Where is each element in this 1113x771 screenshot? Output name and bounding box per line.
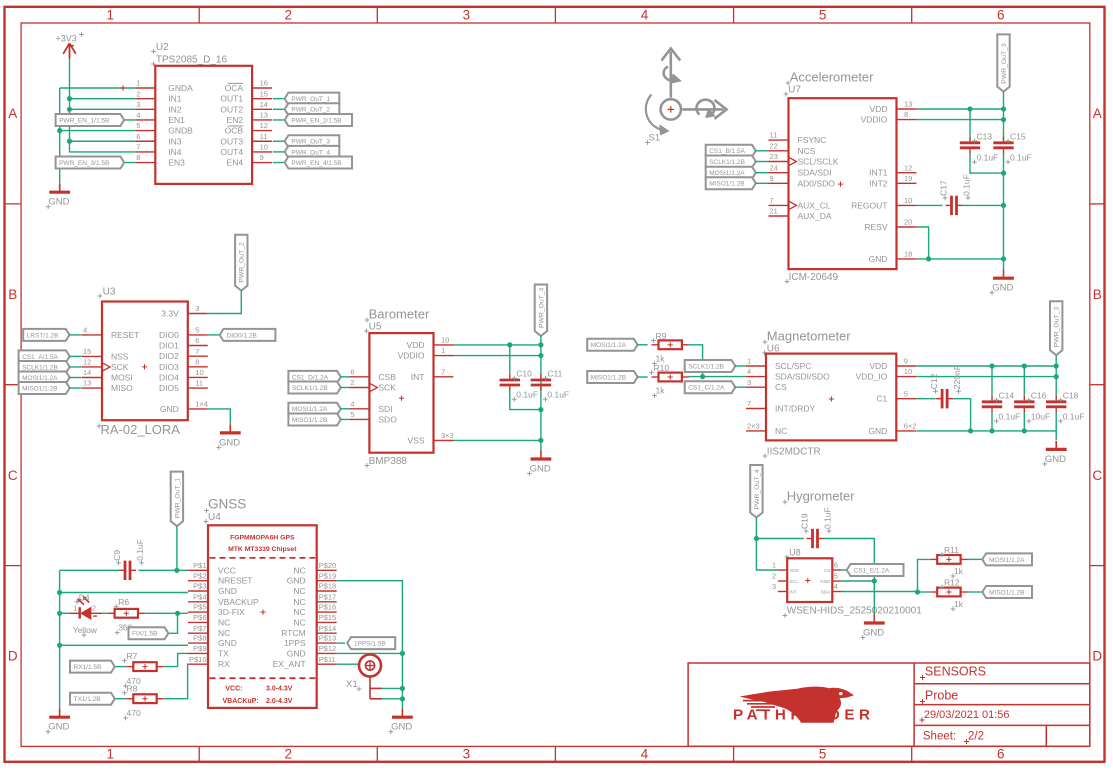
resistor R9 1k xyxy=(651,331,689,366)
U2 pin 3 (IN2) xyxy=(135,100,182,114)
U2 pin 9 (EN4) xyxy=(227,153,273,167)
svg-text:Accelerometer: Accelerometer xyxy=(790,70,874,85)
net label PWR_OuT_2 xyxy=(285,103,340,115)
svg-text:DIO3: DIO3 xyxy=(159,362,179,372)
svg-text:NSS: NSS xyxy=(111,351,129,361)
wire GND trunk xyxy=(59,88,61,184)
net label SCLK1/1.2B xyxy=(685,360,736,372)
resistor R12 1k xyxy=(930,578,967,612)
svg-text:7: 7 xyxy=(770,196,774,205)
svg-text:A: A xyxy=(8,106,17,121)
U7 pin 9 (AD0/SDO) xyxy=(769,174,836,188)
svg-text:C18: C18 xyxy=(1063,391,1079,401)
wire C9 left lead xyxy=(60,569,119,571)
U3 pin 10 (DIO4) xyxy=(159,368,208,382)
svg-text:10: 10 xyxy=(904,196,912,205)
svg-text:C15: C15 xyxy=(1010,132,1026,142)
svg-text:P$2: P$2 xyxy=(193,571,206,580)
svg-text:GND: GND xyxy=(48,722,69,733)
svg-text:10: 10 xyxy=(904,367,912,376)
ground near U5 xyxy=(527,450,551,476)
svg-text:U2: U2 xyxy=(156,42,169,53)
wire VDD xyxy=(917,108,1004,110)
svg-text:INT: INT xyxy=(411,372,425,382)
svg-text:4: 4 xyxy=(350,399,354,408)
svg-text:1k: 1k xyxy=(656,386,666,396)
svg-text:DIO5: DIO5 xyxy=(159,383,179,393)
svg-text:C10: C10 xyxy=(516,369,532,379)
svg-text:GND: GND xyxy=(218,638,237,648)
svg-text:GNDB: GNDB xyxy=(168,126,193,136)
U4 dashed separator bottom xyxy=(210,677,316,679)
junction xyxy=(57,590,62,595)
svg-text:SCL/SPC: SCL/SPC xyxy=(775,361,811,371)
svg-text:P$19: P$19 xyxy=(319,571,337,580)
svg-text:S1: S1 xyxy=(649,133,661,144)
U2 origin cross xyxy=(120,85,125,90)
svg-text:SCK: SCK xyxy=(111,362,129,372)
svg-text:SDA/SDI/SDO: SDA/SDI/SDO xyxy=(775,372,830,382)
wire CS1_E xyxy=(842,569,846,571)
svg-text:VCC: VCC xyxy=(218,565,236,575)
net label RX1/1.5B xyxy=(70,661,115,673)
wire GND pin xyxy=(842,580,875,582)
wire to LED xyxy=(60,612,70,614)
svg-text:SCL: SCL xyxy=(789,579,798,584)
svg-text:D4: D4 xyxy=(79,592,90,602)
gyroscope symbol S1 xyxy=(645,49,726,145)
net label MOSI1/1.2A xyxy=(587,339,637,351)
GNSS module U4 body xyxy=(208,525,317,708)
svg-text:PWR_OuT_3: PWR_OuT_3 xyxy=(1054,307,1061,348)
svg-text:1PPS: 1PPS xyxy=(284,638,306,648)
U3 pin 6 (DIO1) xyxy=(159,336,208,350)
ground lower left xyxy=(46,709,70,735)
junction xyxy=(1054,374,1059,379)
svg-text:EN2: EN2 xyxy=(227,115,244,125)
svg-text:3.0-4.3V: 3.0-4.3V xyxy=(266,686,293,693)
svg-text:GNDA: GNDA xyxy=(168,83,193,93)
svg-text:9: 9 xyxy=(770,174,774,183)
U2 pin 7 (IN4) xyxy=(135,143,182,157)
net label PWR_EN_4/1.5B xyxy=(285,157,352,169)
junction xyxy=(915,589,920,594)
wire DIO0 xyxy=(208,334,219,336)
svg-text:CSB: CSB xyxy=(378,372,396,382)
U3 pin 11 (DIO5) xyxy=(159,379,208,393)
svg-text:AUX_CL: AUX_CL xyxy=(798,200,831,210)
wire RX1 to R7 xyxy=(116,666,127,668)
barometer U5 body xyxy=(369,333,433,453)
svg-text:A: A xyxy=(1093,106,1102,121)
svg-text:P$3: P$3 xyxy=(193,582,206,591)
junction xyxy=(1022,428,1027,433)
U6 pin 2×3 (NC) xyxy=(746,422,787,436)
svg-text:1PPS/1.5B: 1PPS/1.5B xyxy=(354,641,386,648)
svg-text:OCA: OCA xyxy=(225,83,244,93)
svg-text:2/2: 2/2 xyxy=(968,731,984,743)
svg-text:MOSI: MOSI xyxy=(111,373,133,383)
wire C18 bottom lead xyxy=(1055,412,1057,440)
svg-text:8: 8 xyxy=(195,357,199,366)
ground near U2 xyxy=(46,184,70,210)
svg-text:Probe: Probe xyxy=(925,689,958,703)
svg-text:P$11: P$11 xyxy=(319,655,336,664)
svg-text:GND: GND xyxy=(869,254,888,264)
net label PWR_EN_2/1.5B xyxy=(285,114,352,126)
svg-text:DIO1: DIO1 xyxy=(159,341,179,351)
U5 pin 7 (INT) xyxy=(411,367,454,381)
net label PWR_OuT_2 xyxy=(235,235,247,291)
capacitor C19 0.1uF xyxy=(800,507,833,548)
svg-text:OUT1: OUT1 xyxy=(220,94,243,104)
svg-text:PWR_OuT_3: PWR_OuT_3 xyxy=(1001,43,1008,84)
wire to ground xyxy=(1003,259,1005,270)
svg-text:U4: U4 xyxy=(208,512,221,523)
wire GND trunk left xyxy=(59,570,61,708)
svg-text:PWR_OuT_1: PWR_OuT_1 xyxy=(174,478,181,519)
svg-text:VDD: VDD xyxy=(789,568,799,573)
svg-text:5: 5 xyxy=(136,121,140,130)
net label PWR_OuT_1 xyxy=(171,472,183,527)
svg-text:MISO: MISO xyxy=(111,383,133,393)
U4 pin P$8 (GND) xyxy=(188,634,237,648)
U4 pin P$17 (NC) xyxy=(293,592,336,606)
net label CS1_C/1.2A xyxy=(685,381,736,393)
U7 pin 23 (SCL/SCLK) xyxy=(769,152,839,166)
U6 pin 7 (INT/DRDY) xyxy=(746,399,815,413)
resistor R10 1k xyxy=(649,363,689,398)
U6 pin 6×2 (GND) xyxy=(868,422,916,436)
svg-text:NC: NC xyxy=(293,607,305,617)
junction xyxy=(968,428,973,433)
svg-text:Sheet:: Sheet: xyxy=(923,731,956,743)
capacitor C11 0.1uF xyxy=(531,369,569,402)
wire +3V3 to IN3 xyxy=(70,140,136,142)
svg-text:VDD: VDD xyxy=(407,340,425,350)
svg-text:4: 4 xyxy=(136,111,140,120)
junction xyxy=(1001,117,1006,122)
svg-text:IN3: IN3 xyxy=(168,136,182,146)
junction xyxy=(400,696,405,701)
capacitor C17 0.1uF xyxy=(939,174,972,215)
svg-text:0.1uF: 0.1uF xyxy=(977,153,999,163)
svg-text:20: 20 xyxy=(904,218,912,227)
power +3V3 xyxy=(56,32,84,59)
junction xyxy=(872,578,877,583)
U4 pin P$2 (NRESET) xyxy=(188,571,252,585)
wire C13 bottom lead xyxy=(970,153,1004,173)
svg-text:AUX_DA: AUX_DA xyxy=(798,211,832,221)
net label PWR_EN_1/1.5B xyxy=(56,114,125,126)
svg-text:NC: NC xyxy=(293,565,305,575)
antenna connector X1 xyxy=(346,655,382,699)
LoRa module U3 footprint name xyxy=(97,422,181,437)
svg-text:R7: R7 xyxy=(127,651,138,661)
capacitor C9 0.1uF xyxy=(112,539,145,580)
svg-text:CS1_B/1.5A: CS1_B/1.5A xyxy=(709,148,745,155)
svg-text:16: 16 xyxy=(260,79,268,88)
svg-text:GND: GND xyxy=(48,197,69,208)
svg-text:GND: GND xyxy=(992,283,1013,294)
wire C16 bottom lead xyxy=(1023,412,1025,431)
svg-text:GNSS: GNSS xyxy=(208,497,246,512)
svg-text:U3: U3 xyxy=(103,287,116,298)
power switch U2 name xyxy=(151,42,227,66)
barometer U5 name xyxy=(364,321,382,333)
svg-text:13: 13 xyxy=(83,379,91,388)
svg-text:NRESET: NRESET xyxy=(218,576,252,586)
svg-text:3: 3 xyxy=(747,378,751,387)
svg-text:5: 5 xyxy=(904,389,908,398)
U4 pin P$19 (GND) xyxy=(287,571,337,585)
U5 pin 5 (SDO) xyxy=(349,410,397,424)
ground near U7 xyxy=(990,270,1014,296)
svg-text:LRST/1.2B: LRST/1.2B xyxy=(27,332,59,339)
wire power trunk upper xyxy=(1003,92,1005,140)
svg-text:GND: GND xyxy=(219,437,240,448)
svg-text:MISO1/1.2B: MISO1/1.2B xyxy=(989,589,1024,596)
svg-text:10: 10 xyxy=(441,336,449,345)
svg-text:IN2: IN2 xyxy=(168,104,182,114)
svg-text:C11: C11 xyxy=(547,369,562,379)
wire C10 bottom lead xyxy=(510,391,541,410)
wire R9 to SDA node xyxy=(689,345,703,377)
svg-text:PATHFINDER: PATHFINDER xyxy=(733,707,875,724)
svg-text:5: 5 xyxy=(350,410,354,419)
svg-text:0.1uF: 0.1uF xyxy=(962,174,972,196)
U8 pin 6 (CS) xyxy=(824,561,842,573)
wire node to 3D-FIX xyxy=(178,612,189,614)
wire MOSI1 to R9 xyxy=(637,344,648,346)
svg-text:Magnetometer: Magnetometer xyxy=(767,328,851,343)
capacitor C14 0.1uF xyxy=(982,391,1020,424)
svg-text:P$20: P$20 xyxy=(319,561,337,570)
svg-text:P$4: P$4 xyxy=(193,592,206,601)
svg-text:C9: C9 xyxy=(112,550,122,561)
U7 pin 20 (RESV) xyxy=(864,218,916,232)
svg-text:INT2: INT2 xyxy=(869,178,888,188)
U5 pin 4 (SDI) xyxy=(349,399,392,413)
wire barometer power trunk xyxy=(540,336,542,451)
junction xyxy=(1022,363,1027,368)
junction xyxy=(538,438,543,443)
svg-text:R10: R10 xyxy=(654,363,670,373)
svg-text:SCL/SCLK: SCL/SCLK xyxy=(798,157,839,167)
svg-text:PWR_EN_1/1.5B: PWR_EN_1/1.5B xyxy=(59,117,109,124)
wire power trunk lower xyxy=(1003,153,1005,259)
wire C14 bottom lead xyxy=(991,412,993,431)
svg-text:C1: C1 xyxy=(876,394,887,404)
svg-text:NC: NC xyxy=(218,628,230,638)
wire MISO1 xyxy=(340,418,349,420)
title date xyxy=(919,709,1009,722)
junction xyxy=(989,363,994,368)
U2 pin 5 (GNDB) xyxy=(135,121,193,135)
ground near U6 xyxy=(1042,441,1066,467)
svg-text:10: 10 xyxy=(195,368,203,377)
wire +3V3 to IN4 xyxy=(70,59,136,152)
wire GND row xyxy=(917,258,1004,260)
svg-text:12: 12 xyxy=(260,121,268,130)
U7 pin 22 (NCS) xyxy=(769,141,816,155)
svg-text:INT1: INT1 xyxy=(869,168,888,178)
svg-text:2: 2 xyxy=(772,572,776,581)
svg-text:B: B xyxy=(8,287,17,302)
wire RESV down xyxy=(917,227,929,259)
svg-text:CS: CS xyxy=(824,568,830,573)
svg-text:INT: INT xyxy=(789,590,797,595)
wire VSS to GND xyxy=(454,439,541,441)
capacitor C10 0.1uF xyxy=(500,369,538,402)
U4 dashed separator top xyxy=(210,557,316,559)
svg-text:4: 4 xyxy=(641,8,649,23)
svg-text:0.1uF: 0.1uF xyxy=(547,390,569,400)
LED D4 Yellow xyxy=(70,592,102,637)
U4 pin P$4 (VBACKUP) xyxy=(188,592,259,606)
svg-text:C12: C12 xyxy=(929,373,939,389)
svg-text:C19: C19 xyxy=(800,513,810,529)
wire P$12 GND xyxy=(337,652,403,654)
wire GND to GNDA xyxy=(60,87,136,89)
svg-text:PWR_OuT_4: PWR_OuT_4 xyxy=(538,287,545,328)
svg-text:14: 14 xyxy=(260,100,268,109)
title block xyxy=(688,663,1090,746)
title text SENSORS xyxy=(920,665,986,680)
net label PWR_OuT_3 xyxy=(285,135,340,147)
junction xyxy=(538,407,543,412)
hygrometer U8 name xyxy=(785,547,801,559)
svg-text:P$14: P$14 xyxy=(319,624,337,633)
svg-text:GND: GND xyxy=(218,586,237,596)
capacitor C18 0.1uF xyxy=(1046,391,1084,424)
svg-text:1k: 1k xyxy=(954,566,964,576)
svg-text:D: D xyxy=(1092,649,1102,664)
wire SCLK1 xyxy=(69,366,82,368)
U7 pin 24 (SDA/SDI) xyxy=(769,163,832,177)
svg-text:P$16: P$16 xyxy=(319,603,337,612)
svg-text:DIO0/1.2B: DIO0/1.2B xyxy=(227,332,257,339)
wire VDD xyxy=(454,344,541,346)
U6 pin 10 (VDD_IO) xyxy=(856,367,917,381)
svg-text:MOSI1/1.2A: MOSI1/1.2A xyxy=(22,375,58,382)
U4 pin P$3 (GND) xyxy=(188,582,237,596)
svg-text:PWR_EN_2/1.5B: PWR_EN_2/1.5B xyxy=(291,117,341,124)
wire R12 to MISO tag xyxy=(967,591,981,593)
U3 pin 7 (DIO2) xyxy=(159,347,208,361)
svg-text:DIO4: DIO4 xyxy=(159,372,179,382)
U6 pin 5 (C1) xyxy=(876,389,916,403)
wire MOSI1 xyxy=(755,172,768,174)
junction xyxy=(57,611,62,616)
ground lower mid xyxy=(389,709,413,735)
svg-text:VDD: VDD xyxy=(870,104,888,114)
svg-text:470: 470 xyxy=(127,708,141,718)
svg-text:OCB: OCB xyxy=(225,126,244,136)
svg-text:GND: GND xyxy=(287,576,306,586)
junction xyxy=(174,568,179,573)
svg-text:3.3V: 3.3V xyxy=(161,309,179,319)
svg-text:11: 11 xyxy=(195,379,203,388)
svg-text:18: 18 xyxy=(904,250,912,259)
accelerometer U7 part name xyxy=(785,272,839,284)
svg-text:1: 1 xyxy=(747,357,751,366)
svg-text:6: 6 xyxy=(350,367,354,376)
svg-text:IN1: IN1 xyxy=(168,94,182,104)
svg-text:6: 6 xyxy=(997,8,1005,23)
U4 pin P$20 (NC) xyxy=(293,561,336,575)
U7 pin 18 (GND) xyxy=(869,250,917,264)
svg-text:TX1/1.2B: TX1/1.2B xyxy=(74,696,101,703)
ground near U8 xyxy=(860,614,884,640)
svg-text:DIO0: DIO0 xyxy=(159,330,179,340)
U2 pin 15 (OUT1) xyxy=(220,89,272,103)
svg-text:4: 4 xyxy=(834,582,838,591)
U4 pin P$1 (VCC) xyxy=(188,561,236,575)
wire C16 top lead xyxy=(1023,366,1025,396)
svg-text:MOSI1/1.2A: MOSI1/1.2A xyxy=(292,406,328,413)
wire node to FIX tag xyxy=(169,613,178,633)
net label MISO1/1.2B xyxy=(288,413,340,425)
svg-text:12: 12 xyxy=(904,163,912,172)
svg-text:MISO1/1.2B: MISO1/1.2B xyxy=(709,181,744,188)
junction xyxy=(926,256,931,261)
U4 pin P$13 (1PPS) xyxy=(284,634,337,648)
svg-text:3: 3 xyxy=(772,582,776,591)
svg-text:SCLK1/1.2B: SCLK1/1.2B xyxy=(688,363,724,370)
svg-text:MISO1/1.2B: MISO1/1.2B xyxy=(292,417,327,424)
U5 origin cross xyxy=(399,396,404,401)
wire GND to GNDB xyxy=(60,130,136,132)
svg-text:GND: GND xyxy=(1045,454,1066,465)
svg-text:IIS2MDCTR: IIS2MDCTR xyxy=(767,446,821,457)
svg-text:0.1uF: 0.1uF xyxy=(516,390,538,400)
magnetometer U6 name xyxy=(762,343,780,355)
svg-text:24: 24 xyxy=(770,163,778,172)
resistor R8 470 xyxy=(122,683,164,720)
svg-text:TX: TX xyxy=(218,648,229,658)
U8 pin 3 (INT) xyxy=(772,582,797,594)
net label MISO1/1.2B xyxy=(19,382,70,394)
op-amp U2 body xyxy=(155,66,252,184)
U7 pin 19 (INT2) xyxy=(869,174,916,188)
svg-text:PWR_EN_3/1.5B: PWR_EN_3/1.5B xyxy=(59,160,109,167)
net label LRST/1.2B xyxy=(23,329,69,341)
svg-text:PWR_OuT_1: PWR_OuT_1 xyxy=(291,96,330,103)
wire magneto trunk upper xyxy=(1055,355,1057,396)
svg-text:1: 1 xyxy=(441,346,445,355)
svg-text:OUT2: OUT2 xyxy=(220,104,243,114)
svg-text:2: 2 xyxy=(285,8,293,23)
svg-text:REGOUT: REGOUT xyxy=(851,200,887,210)
net label SCLK1/1.2B xyxy=(288,382,340,394)
wire SCLK1 xyxy=(755,161,768,163)
wire CS1_B xyxy=(755,150,768,152)
svg-text:C16: C16 xyxy=(1031,391,1047,401)
U4 pin P$18 (NC) xyxy=(293,582,336,596)
LoRa module U3 name xyxy=(98,287,116,299)
svg-text:P$17: P$17 xyxy=(319,592,337,601)
U7 pin 11 (FSYNC) xyxy=(769,131,827,145)
svg-text:X1: X1 xyxy=(346,679,358,690)
wire REGOUT to C17 xyxy=(917,204,943,206)
wire 1PPS xyxy=(337,642,345,644)
svg-text:R12: R12 xyxy=(944,578,960,588)
svg-text:PWR_OuT_3: PWR_OuT_3 xyxy=(291,139,330,146)
svg-text:RTCM: RTCM xyxy=(281,628,305,638)
svg-text:29/03/2021 01:56: 29/03/2021 01:56 xyxy=(924,709,1010,721)
svg-text:4: 4 xyxy=(747,367,751,376)
